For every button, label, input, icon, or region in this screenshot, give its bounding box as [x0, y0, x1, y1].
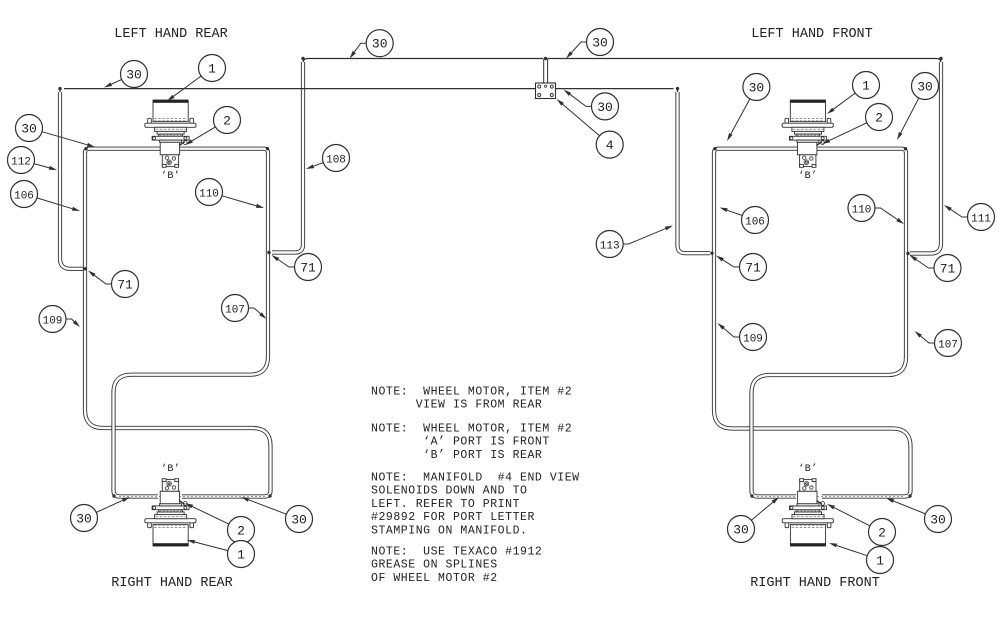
svg-text:1: 1 — [208, 61, 216, 76]
svg-text:2: 2 — [875, 110, 883, 125]
svg-text:30: 30 — [592, 35, 608, 50]
svg-text:RIGHT HAND FRONT: RIGHT HAND FRONT — [750, 576, 880, 591]
svg-text:4: 4 — [606, 138, 614, 153]
svg-text:2: 2 — [237, 523, 245, 538]
svg-text:‘B’: ‘B’ — [161, 463, 181, 475]
svg-text:‘A’ PORT IS FRONT: ‘A’ PORT IS FRONT — [371, 436, 550, 449]
svg-text:VIEW IS FROM REAR: VIEW IS FROM REAR — [371, 399, 542, 412]
svg-text:110: 110 — [852, 204, 872, 216]
svg-text:‘B’: ‘B’ — [161, 170, 181, 182]
svg-text:LEFT HAND REAR: LEFT HAND REAR — [114, 27, 227, 42]
svg-text:30: 30 — [733, 522, 749, 537]
svg-text:NOTE: WHEEL MOTOR, ITEM #2: NOTE: WHEEL MOTOR, ITEM #2 — [371, 423, 572, 436]
svg-text:1: 1 — [876, 553, 884, 568]
svg-text:1: 1 — [862, 78, 870, 93]
svg-text:‘B’: ‘B’ — [798, 463, 818, 475]
svg-text:LEFT. REFER TO PRINT: LEFT. REFER TO PRINT — [371, 498, 520, 511]
svg-text:RIGHT HAND REAR: RIGHT HAND REAR — [111, 576, 233, 591]
svg-text:LEFT HAND FRONT: LEFT HAND FRONT — [751, 27, 873, 42]
svg-text:113: 113 — [600, 240, 620, 252]
svg-text:30: 30 — [76, 511, 92, 526]
svg-text:2: 2 — [878, 525, 886, 540]
svg-text:111: 111 — [971, 213, 991, 225]
svg-text:109: 109 — [43, 315, 63, 327]
svg-text:30: 30 — [930, 512, 946, 527]
svg-text:NOTE: USE TEXACO #1912: NOTE: USE TEXACO #1912 — [371, 546, 542, 559]
svg-text:30: 30 — [126, 67, 142, 82]
svg-text:GREASE ON SPLINES: GREASE ON SPLINES — [371, 559, 498, 572]
svg-text:OF WHEEL MOTOR #2: OF WHEEL MOTOR #2 — [371, 572, 498, 585]
svg-text:112: 112 — [11, 156, 31, 168]
svg-text:30: 30 — [917, 79, 933, 94]
svg-text:106: 106 — [14, 190, 34, 202]
svg-text:30: 30 — [21, 121, 37, 136]
svg-text:109: 109 — [743, 333, 763, 345]
svg-text:108: 108 — [326, 154, 346, 166]
svg-text:107: 107 — [938, 339, 958, 351]
svg-text:‘B’: ‘B’ — [798, 170, 818, 182]
svg-text:30: 30 — [749, 80, 765, 95]
svg-text:71: 71 — [745, 260, 761, 275]
svg-text:30: 30 — [291, 512, 307, 527]
svg-text:SOLENOIDS DOWN AND TO: SOLENOIDS DOWN AND TO — [371, 485, 527, 498]
svg-text:30: 30 — [372, 37, 388, 52]
svg-text:2: 2 — [223, 113, 231, 128]
svg-text:71: 71 — [300, 260, 316, 275]
svg-text:#29892 FOR PORT LETTER: #29892 FOR PORT LETTER — [371, 511, 535, 524]
svg-text:110: 110 — [199, 188, 219, 200]
svg-text:NOTE: WHEEL MOTOR, ITEM #2: NOTE: WHEEL MOTOR, ITEM #2 — [371, 386, 572, 399]
svg-text:71: 71 — [940, 261, 956, 276]
svg-text:‘B’ PORT IS REAR: ‘B’ PORT IS REAR — [371, 449, 542, 462]
svg-text:1: 1 — [237, 547, 245, 562]
svg-text:71: 71 — [117, 277, 133, 292]
svg-text:NOTE: MANIFOLD #4 END VIEW: NOTE: MANIFOLD #4 END VIEW — [371, 472, 580, 485]
svg-text:STAMPING ON MANIFOLD.: STAMPING ON MANIFOLD. — [371, 524, 527, 537]
svg-text:30: 30 — [597, 100, 613, 115]
svg-text:107: 107 — [225, 304, 245, 316]
svg-text:106: 106 — [745, 216, 765, 228]
